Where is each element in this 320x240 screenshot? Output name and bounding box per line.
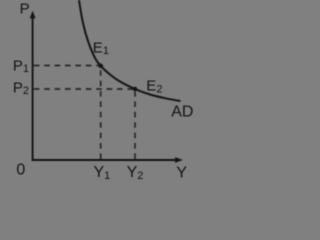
dashed line E1-Y1 (vertical) bbox=[100, 68, 102, 159]
svg-text:AD: AD bbox=[171, 104, 193, 121]
axis Y (horizontal) bbox=[32, 159, 176, 161]
arrowhead P axis bbox=[30, 11, 36, 19]
dashed line P1-E1 (horizontal) bbox=[34, 65, 99, 67]
AD curve bbox=[79, 0, 181, 101]
svg-text:P: P bbox=[20, 0, 30, 17]
dashed line E2-Y2 (vertical) bbox=[134, 92, 136, 160]
dashed line P2-E2 (horizontal) bbox=[34, 88, 133, 90]
axis P (vertical) bbox=[32, 16, 34, 161]
svg-text:0: 0 bbox=[16, 162, 25, 179]
point E1 bbox=[99, 64, 104, 69]
svg-text:Y: Y bbox=[176, 164, 187, 181]
arrowhead Y axis bbox=[175, 157, 183, 163]
point E2 bbox=[133, 87, 138, 92]
